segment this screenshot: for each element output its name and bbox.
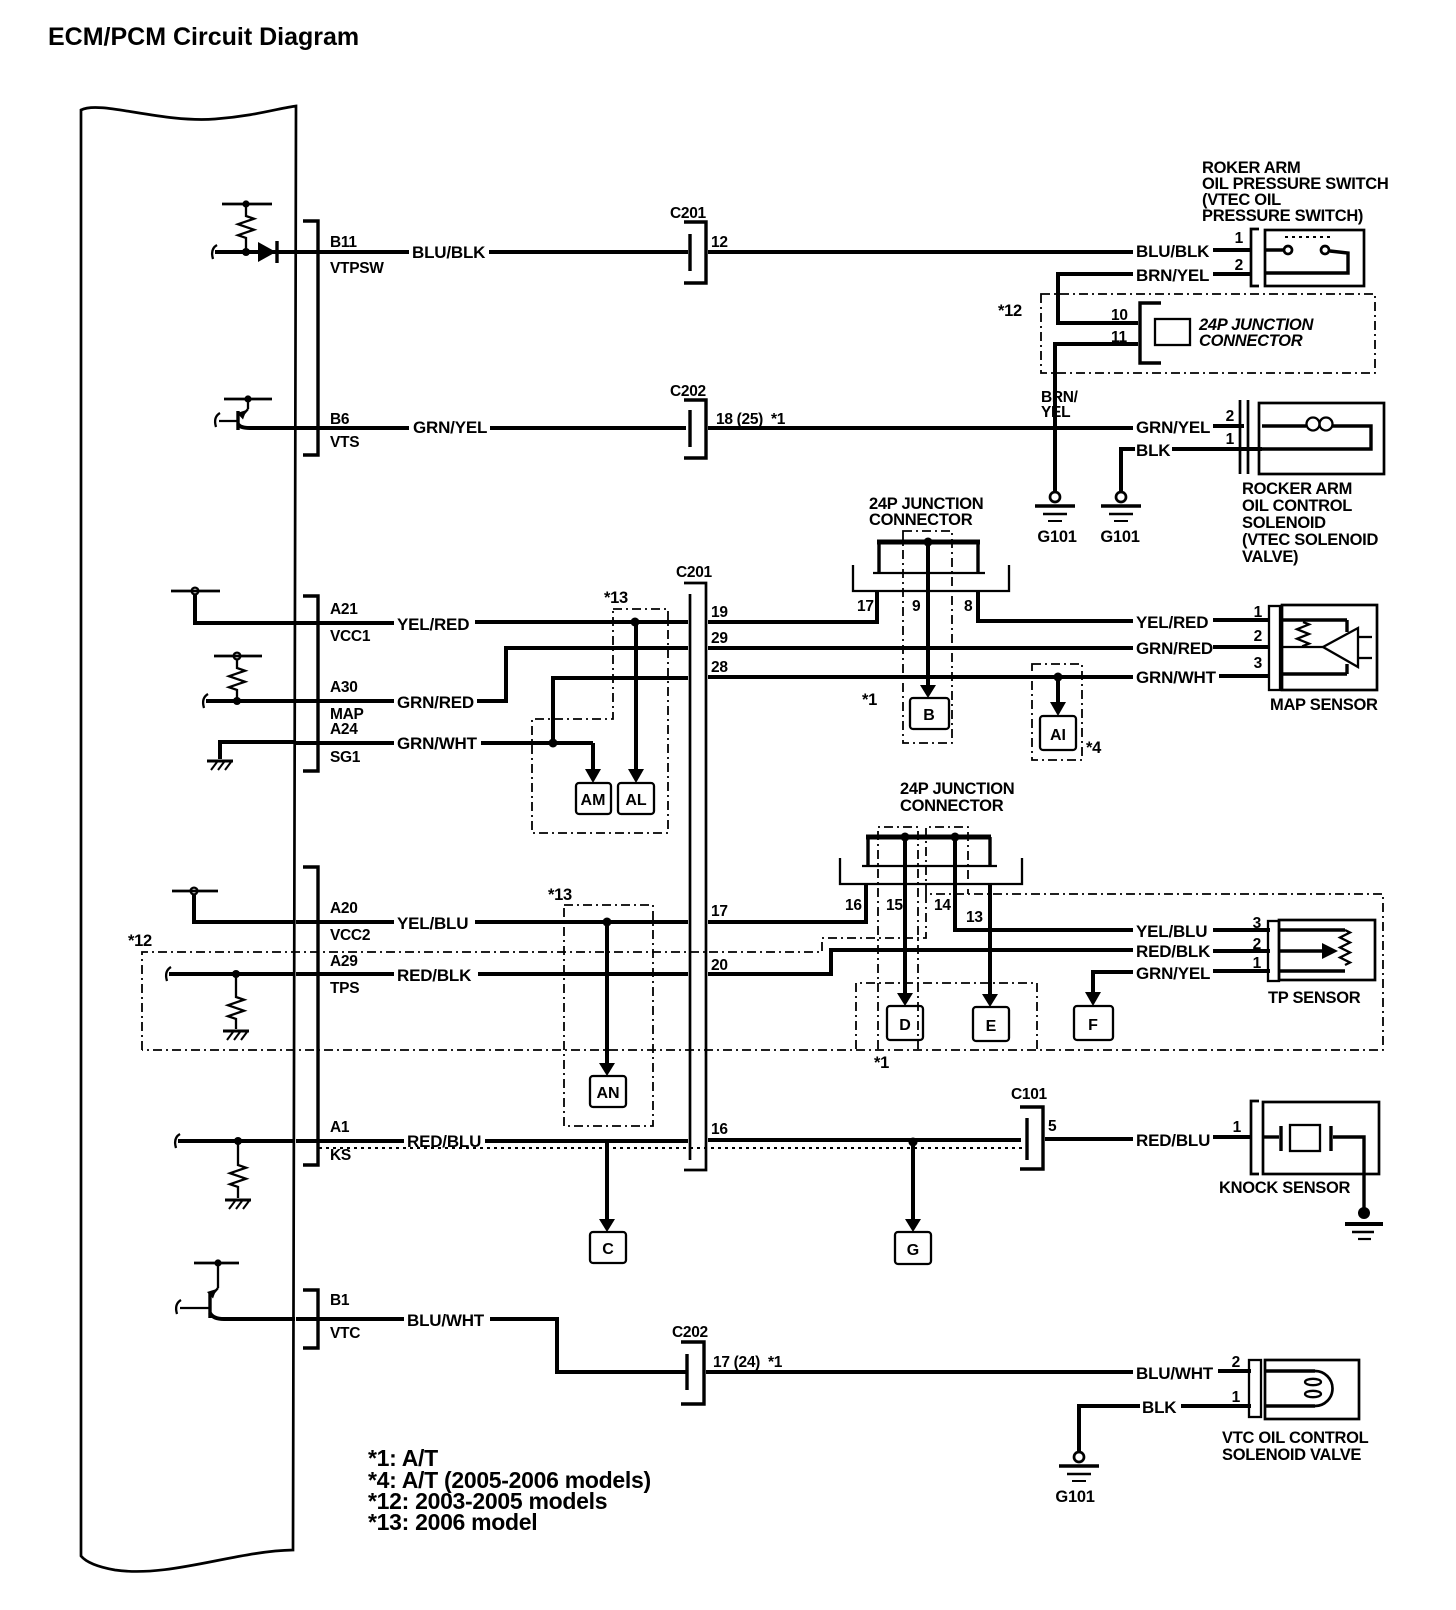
svg-text:BLU/BLK: BLU/BLK bbox=[1136, 242, 1210, 261]
svg-text:10: 10 bbox=[1111, 307, 1128, 324]
svg-text:CONNECTOR: CONNECTOR bbox=[900, 797, 1004, 815]
24P junction connector (second) body bbox=[866, 835, 991, 840]
svg-text:15: 15 bbox=[886, 897, 903, 914]
svg-text:G101: G101 bbox=[1037, 528, 1076, 546]
svg-text:CONNECTOR: CONNECTOR bbox=[869, 511, 973, 529]
svg-text:A1: A1 bbox=[330, 1119, 350, 1136]
dash-dot box *1 around pin 9 / connector B bbox=[903, 531, 952, 743]
dash-dot box *13 around AM/AL connectors bbox=[532, 609, 668, 833]
wire to connector AN bbox=[605, 922, 609, 1064]
svg-text:YEL/BLU: YEL/BLU bbox=[397, 914, 468, 933]
wire MAP input to ECM pin bbox=[206, 699, 295, 703]
svg-text:SG1: SG1 bbox=[330, 749, 361, 766]
connector F bbox=[1074, 1006, 1113, 1040]
dash-dot box around connectors D/E bbox=[856, 983, 1037, 1049]
svg-text:*13: *13 bbox=[548, 886, 572, 904]
svg-text:BLU/WHT: BLU/WHT bbox=[407, 1311, 485, 1330]
wire pin A21 through bracket bbox=[296, 621, 394, 625]
wire YEL/RED to MAP pin 1 bbox=[1213, 618, 1270, 622]
svg-text:17: 17 bbox=[711, 903, 728, 920]
wire GRN/YEL from connector F bbox=[1093, 970, 1133, 974]
junction dot TPS line bbox=[232, 970, 240, 978]
dash-dot corridor *1 around pin 15 / connector D bbox=[878, 827, 918, 1049]
wire pin B11 through bracket bbox=[296, 250, 409, 254]
svg-text:GRN/WHT: GRN/WHT bbox=[1136, 668, 1217, 687]
wire BLK down to ground bbox=[1079, 1406, 1140, 1452]
connector C201 (single cavity) bbox=[684, 222, 706, 283]
svg-text:11: 11 bbox=[1111, 329, 1127, 346]
wire GRN/YEL to TP pin 1 bbox=[1213, 969, 1270, 973]
svg-text:RED/BLK: RED/BLK bbox=[397, 966, 472, 985]
svg-text:G101: G101 bbox=[1055, 1488, 1094, 1506]
svg-text:19: 19 bbox=[711, 604, 728, 621]
wire GRN/WHT to MAP pin 3 bbox=[1219, 674, 1270, 678]
chassis ground (SG1) bbox=[207, 761, 233, 770]
svg-text:RED/BLK: RED/BLK bbox=[1136, 942, 1211, 961]
supply bar for VCC1 bbox=[171, 590, 220, 593]
transistor (VTC output driver) bbox=[217, 1263, 219, 1288]
svg-text:1: 1 bbox=[1254, 604, 1263, 621]
svg-text:28: 28 bbox=[711, 659, 728, 676]
wire stub to VTC solenoid pin 2 bbox=[1218, 1369, 1251, 1373]
wire BLU/BLK C201 to pressure switch bbox=[708, 250, 1133, 254]
svg-text:1: 1 bbox=[1235, 230, 1244, 247]
junction dot GRN/WHT bbox=[549, 739, 558, 748]
wire stub to knock sensor pin 1 bbox=[1213, 1135, 1251, 1139]
wire BRN/YEL to junction vertical bbox=[1058, 272, 1133, 276]
dash-dot region *12 (2003-2005 models) boundary bbox=[142, 894, 1383, 1050]
wire branch to connector G bbox=[911, 1143, 915, 1220]
svg-text:A24: A24 bbox=[330, 721, 358, 738]
connector C202 (single cavity, bottom) bbox=[681, 1342, 704, 1404]
svg-text:2: 2 bbox=[1226, 408, 1234, 425]
wire pin B6 through bracket bbox=[296, 426, 409, 430]
svg-text:VCC2: VCC2 bbox=[330, 927, 370, 944]
svg-text:A30: A30 bbox=[330, 679, 358, 696]
svg-text:C201: C201 bbox=[676, 564, 713, 581]
wire BLU/WHT down to C202 bbox=[490, 1319, 686, 1372]
wire KS input to ECM pin bbox=[178, 1139, 295, 1143]
supply bar for VTC driver bbox=[194, 1262, 239, 1265]
node dot on supply bar bbox=[214, 1259, 221, 1266]
connector AI bbox=[1040, 716, 1076, 750]
wire pin B6 from transistor bbox=[238, 424, 295, 428]
MAP sensor connector bbox=[1269, 606, 1280, 690]
svg-text:20: 20 bbox=[711, 957, 728, 974]
svg-text:VTC OIL CONTROL: VTC OIL CONTROL bbox=[1222, 1429, 1369, 1447]
svg-text:GRN/RED: GRN/RED bbox=[1136, 639, 1213, 658]
wire TPS input to ECM pin bbox=[169, 972, 295, 976]
ECM/PCM body outline (torn-edge box) bbox=[81, 106, 296, 1571]
connector D bbox=[887, 1006, 923, 1040]
wire GRN/WHT from label to junction bbox=[481, 741, 593, 745]
svg-text:*13: 2006 model: *13: 2006 model bbox=[368, 1509, 537, 1535]
shield dashed line along KS wire bbox=[319, 1147, 1026, 1149]
svg-text:OIL CONTROL: OIL CONTROL bbox=[1242, 497, 1352, 515]
svg-text:3: 3 bbox=[1254, 655, 1263, 672]
svg-text:VTC: VTC bbox=[330, 1325, 360, 1342]
rocker arm oil control solenoid connector bbox=[1239, 400, 1242, 474]
svg-text:GRN/YEL: GRN/YEL bbox=[1136, 964, 1210, 983]
svg-text:A21: A21 bbox=[330, 601, 358, 618]
svg-text:BRN/YEL: BRN/YEL bbox=[1136, 266, 1209, 285]
svg-text:CONNECTOR: CONNECTOR bbox=[1199, 332, 1303, 350]
knock sensor connector bracket bbox=[1251, 1101, 1259, 1174]
dash-dot box *13 around connector AN bbox=[564, 905, 653, 1126]
wire BLK from solenoid pin 1 bbox=[1172, 447, 1262, 451]
svg-text:18 (25) *1: 18 (25) *1 bbox=[716, 411, 786, 428]
svg-text:2: 2 bbox=[1232, 1354, 1240, 1371]
wire YEL/BLU to TP pin 3 bbox=[1213, 928, 1270, 932]
junction dot YEL/BLU (*13 tap) bbox=[603, 918, 612, 927]
wire GRN/WHT up to C201 pin 28 bbox=[553, 678, 688, 743]
svg-text:3: 3 bbox=[1253, 915, 1262, 932]
svg-text:1: 1 bbox=[1253, 955, 1262, 972]
svg-text:AI: AI bbox=[1050, 727, 1066, 744]
junction dot RED/BLU (G tap) bbox=[909, 1138, 918, 1147]
wire branch to connector F bbox=[1091, 970, 1095, 993]
open-ended wire stub (KS input) bbox=[175, 1134, 180, 1148]
svg-text:B1: B1 bbox=[330, 1292, 350, 1309]
svg-text:G: G bbox=[907, 1242, 919, 1259]
TP sensor connector bbox=[1268, 921, 1279, 981]
wire RED/BLU C101 to knock sensor bbox=[1045, 1137, 1133, 1141]
svg-text:A20: A20 bbox=[330, 900, 358, 917]
svg-text:AN: AN bbox=[596, 1085, 619, 1102]
svg-text:D: D bbox=[899, 1017, 911, 1034]
svg-text:C101: C101 bbox=[1011, 1086, 1048, 1103]
wire stub to switch pin 1 bbox=[1213, 248, 1251, 252]
wire RED/BLU C201 to C101 bbox=[708, 1138, 1021, 1142]
connector B bbox=[910, 698, 949, 729]
svg-text:RED/BLU: RED/BLU bbox=[1136, 1131, 1210, 1150]
wire VCC2 supply to pin A20 bbox=[194, 894, 295, 922]
svg-text:5: 5 bbox=[1048, 1118, 1057, 1135]
VTC oil control solenoid valve body bbox=[1265, 1360, 1359, 1419]
pull-up resistor on VTPSW line bbox=[238, 204, 254, 252]
svg-text:BLU/WHT: BLU/WHT bbox=[1136, 1364, 1214, 1383]
wire pin A1 through bracket bbox=[296, 1139, 404, 1143]
wire BLK from VTC solenoid pin 1 bbox=[1181, 1404, 1251, 1408]
svg-text:2: 2 bbox=[1254, 628, 1262, 645]
TP sensor body bbox=[1279, 920, 1375, 980]
wire VCC1 supply to pin A21 bbox=[195, 594, 295, 623]
svg-text:BLK: BLK bbox=[1142, 1398, 1177, 1417]
24P junction connector (pins 10/11) symbol bbox=[1140, 303, 1161, 363]
wire pin A29 through bracket bbox=[296, 972, 394, 976]
junction dot KS line bbox=[234, 1137, 242, 1145]
svg-text:*12: *12 bbox=[128, 932, 152, 950]
connector AL bbox=[618, 783, 654, 814]
wire junction pin 8 to MAP sensor bbox=[978, 591, 1133, 621]
pull-up resistor on MAP line bbox=[229, 659, 245, 699]
svg-text:G101: G101 bbox=[1100, 528, 1139, 546]
svg-text:C: C bbox=[602, 1241, 614, 1258]
svg-text:1: 1 bbox=[1226, 431, 1235, 448]
node circle on VCC1 supply bbox=[192, 588, 199, 595]
connector C bbox=[590, 1232, 626, 1263]
svg-text:VTPSW: VTPSW bbox=[330, 260, 384, 277]
connector C202 (single cavity) bbox=[684, 400, 706, 458]
svg-text:PRESSURE SWITCH): PRESSURE SWITCH) bbox=[1202, 207, 1363, 225]
svg-text:YEL/RED: YEL/RED bbox=[397, 615, 469, 634]
svg-text:SOLENOID: SOLENOID bbox=[1242, 514, 1326, 532]
svg-text:(VTEC SOLENOID: (VTEC SOLENOID bbox=[1242, 531, 1378, 549]
node circle on MAP supply bbox=[234, 653, 241, 660]
svg-text:B11: B11 bbox=[330, 234, 357, 251]
svg-text:E: E bbox=[986, 1018, 997, 1035]
svg-text:F: F bbox=[1088, 1017, 1098, 1034]
svg-text:17: 17 bbox=[857, 598, 874, 615]
wire branch to connector AM bbox=[591, 743, 595, 770]
wire junction pin 11 to ground bbox=[1055, 344, 1138, 492]
wire pin A20 through bracket bbox=[296, 920, 394, 924]
connector AN bbox=[590, 1076, 626, 1107]
wire RED/BLK to C201 pin 20 bbox=[478, 972, 688, 976]
chassis ground (TPS pull-down) bbox=[223, 1031, 249, 1040]
wire GRN/RED C201 to MAP sensor bbox=[708, 646, 1133, 650]
wire BLK down to ground bbox=[1121, 449, 1135, 492]
wire branch to connector AI bbox=[1056, 677, 1060, 703]
wire BLU/WHT C202 to VTC solenoid bbox=[706, 1370, 1133, 1374]
open-ended wire stub (TPS input) bbox=[166, 967, 171, 981]
wire BRN/YEL from switch pin 2 bbox=[1213, 272, 1251, 276]
supply bar for VTS driver bbox=[224, 398, 272, 401]
open-ended wire stub (VTPSW input) bbox=[212, 245, 217, 259]
svg-text:GRN/WHT: GRN/WHT bbox=[397, 734, 478, 753]
svg-text:MAP SENSOR: MAP SENSOR bbox=[1270, 696, 1378, 714]
svg-text:A29: A29 bbox=[330, 953, 358, 970]
junction dot MAP line bbox=[233, 697, 241, 705]
svg-text:*1: *1 bbox=[874, 1054, 889, 1072]
wire stub to solenoid pin 2 bbox=[1213, 424, 1244, 428]
wire YEL/BLU C201 to junction pin 16 bbox=[708, 884, 866, 922]
svg-text:VCC1: VCC1 bbox=[330, 628, 371, 645]
wire pin A30 through bracket bbox=[296, 699, 394, 703]
svg-text:GRN/YEL: GRN/YEL bbox=[1136, 418, 1210, 437]
pull-down resistor on TPS line bbox=[228, 974, 244, 1029]
svg-text:1: 1 bbox=[1232, 1389, 1241, 1406]
svg-text:*4: *4 bbox=[1086, 739, 1102, 757]
connector E bbox=[973, 1007, 1009, 1041]
wire junction pin 13 to connector E bbox=[988, 884, 992, 995]
svg-text:9: 9 bbox=[912, 598, 921, 615]
svg-text:VALVE): VALVE) bbox=[1242, 548, 1298, 566]
svg-text:2: 2 bbox=[1235, 257, 1243, 274]
chassis ground (knock sensor) bbox=[1358, 1207, 1370, 1219]
wire GRN/RED to MAP pin 2 bbox=[1213, 645, 1270, 649]
wire GRN/YEL C202 to solenoid bbox=[708, 426, 1133, 430]
svg-text:12: 12 bbox=[711, 234, 728, 251]
svg-text:C202: C202 bbox=[672, 1324, 708, 1341]
svg-text:ROCKER ARM: ROCKER ARM bbox=[1242, 480, 1352, 498]
svg-text:SOLENOID VALVE: SOLENOID VALVE bbox=[1222, 1446, 1361, 1464]
svg-text:YEL: YEL bbox=[1041, 404, 1070, 421]
ECM pin bracket (A20/A29/A1 group) bbox=[303, 867, 318, 1165]
svg-text:VTS: VTS bbox=[330, 434, 359, 451]
open-ended base wire stub bbox=[176, 1300, 181, 1314]
svg-text:C202: C202 bbox=[670, 383, 706, 400]
svg-text:B6: B6 bbox=[330, 411, 350, 428]
open-ended wire stub (MAP input) bbox=[203, 694, 208, 708]
connector AM bbox=[576, 783, 611, 814]
ground G101 (VTC solenoid) bbox=[1059, 1452, 1099, 1481]
ECM pin bracket (B1 group) bbox=[303, 1290, 318, 1348]
wire BLU/BLK to C201 bbox=[489, 250, 688, 254]
ECM pin bracket (A21/A30/A24 group) bbox=[303, 596, 318, 771]
wire SG1 to chassis ground bbox=[220, 742, 295, 759]
node dot on supply bar bbox=[244, 395, 251, 402]
wire to connector AL bbox=[634, 622, 638, 770]
svg-text:GRN/YEL: GRN/YEL bbox=[413, 418, 487, 437]
wire GRN/WHT C201 to MAP sensor bbox=[708, 675, 1133, 679]
svg-text:24P JUNCTION: 24P JUNCTION bbox=[900, 780, 1014, 798]
supply bar for MAP pull-up bbox=[214, 655, 262, 658]
svg-text:BLK: BLK bbox=[1136, 441, 1171, 460]
wire YEL/RED C201 to junction pin 17 bbox=[708, 591, 877, 622]
dash-dot box *12 (2003-2005 models) around 24P junction connector bbox=[1041, 294, 1375, 373]
svg-text:YEL/RED: YEL/RED bbox=[1136, 613, 1208, 632]
svg-text:*13: *13 bbox=[604, 589, 628, 607]
svg-text:17 (24) *1: 17 (24) *1 bbox=[713, 1354, 783, 1371]
svg-text:*12: *12 bbox=[998, 302, 1022, 320]
supply bar for VTPSW pull-up bbox=[222, 203, 272, 206]
svg-text:AL: AL bbox=[625, 792, 647, 809]
svg-text:C201: C201 bbox=[670, 205, 707, 222]
rocker arm oil control solenoid (VTEC solenoid valve) bbox=[1259, 403, 1384, 474]
svg-text:AM: AM bbox=[581, 792, 606, 809]
svg-text:TPS: TPS bbox=[330, 980, 359, 997]
connector G bbox=[895, 1232, 931, 1264]
svg-text:GRN/RED: GRN/RED bbox=[397, 693, 474, 712]
junction dot GRN/WHT (AI tap) bbox=[1054, 673, 1063, 682]
wire YEL/BLU to C201 pin 17 bbox=[475, 920, 688, 924]
pull-down resistor on KS line bbox=[230, 1141, 246, 1198]
svg-text:KS: KS bbox=[330, 1147, 351, 1164]
wire RED/BLU to C201 pin 16 bbox=[485, 1139, 688, 1143]
svg-text:29: 29 bbox=[711, 630, 728, 647]
wire RED/BLK to TP pin 2 bbox=[1213, 949, 1270, 953]
svg-text:14: 14 bbox=[934, 897, 951, 914]
svg-text:KNOCK SENSOR: KNOCK SENSOR bbox=[1219, 1179, 1351, 1197]
svg-text:YEL/BLU: YEL/BLU bbox=[1136, 922, 1207, 941]
wire pin B1 from transistor bbox=[210, 1313, 295, 1319]
open-ended base wire stub bbox=[215, 413, 220, 427]
svg-text:BLU/BLK: BLU/BLK bbox=[412, 243, 486, 262]
rocker arm oil pressure switch (VTEC oil pressure switch) bbox=[1265, 230, 1364, 286]
chassis ground (KS pull-down) bbox=[225, 1200, 251, 1209]
wire BRN/YEL down to junction pin 10 bbox=[1058, 272, 1138, 323]
svg-text:2: 2 bbox=[1253, 936, 1261, 953]
wire YEL/RED to C201 pin 19 bbox=[475, 620, 688, 624]
svg-text:1: 1 bbox=[1233, 1119, 1242, 1136]
wire pin B1 through bracket bbox=[296, 1317, 404, 1321]
node circle on VCC2 supply bbox=[191, 888, 198, 895]
ECM pin bracket (B11/B6 group) bbox=[303, 221, 318, 455]
dash-dot box *4 around connector AI bbox=[1032, 664, 1082, 760]
wire junction pin 15 to connector D bbox=[903, 837, 907, 994]
dash-dot corridor around pin 14 bbox=[926, 827, 968, 894]
wire VTPSW input to ECM bbox=[215, 250, 295, 254]
junction dot VTPSW line bbox=[242, 248, 250, 256]
MAP sensor body bbox=[1282, 605, 1377, 690]
svg-text:ECM/PCM Circuit Diagram: ECM/PCM Circuit Diagram bbox=[48, 23, 359, 51]
wire branch to connector C bbox=[605, 1143, 609, 1220]
ground G101 (solenoid BLK) bbox=[1101, 492, 1141, 521]
svg-text:B: B bbox=[923, 707, 935, 724]
knock sensor body bbox=[1263, 1102, 1379, 1174]
wire junction pin 9 to connector B bbox=[926, 542, 930, 686]
wire junction pin 14 to TP sensor bbox=[955, 837, 1133, 930]
svg-text:8: 8 bbox=[964, 598, 973, 615]
wire GRN/RED up to C201 pin 29 bbox=[477, 648, 688, 701]
connector C201 (multi-pin body) bbox=[684, 583, 706, 1170]
supply bar for VCC2 bbox=[172, 890, 218, 893]
clamp diode on VTPSW line bbox=[258, 242, 276, 262]
junction dot YEL/RED (*13 tap) bbox=[631, 618, 640, 627]
svg-text:16: 16 bbox=[845, 897, 862, 914]
rocker arm oil pressure switch connector bracket bbox=[1251, 229, 1259, 286]
svg-text:13: 13 bbox=[966, 909, 983, 926]
wire GRN/YEL to C202 bbox=[490, 426, 686, 430]
wire pin A24 through bracket bbox=[296, 741, 394, 745]
transistor (VTS output driver) bbox=[247, 399, 249, 409]
svg-text:TP SENSOR: TP SENSOR bbox=[1268, 989, 1361, 1007]
VTC oil control solenoid valve connector bbox=[1249, 1360, 1261, 1417]
svg-text:16: 16 bbox=[711, 1121, 728, 1138]
svg-text:*1: *1 bbox=[862, 691, 877, 709]
wire RED/BLK C201 to TP sensor (with step) bbox=[708, 950, 1133, 974]
node dot on supply bar bbox=[242, 200, 249, 207]
connector C101 (single cavity) bbox=[1020, 1107, 1043, 1169]
ground G101 (junction connector) bbox=[1035, 492, 1075, 521]
